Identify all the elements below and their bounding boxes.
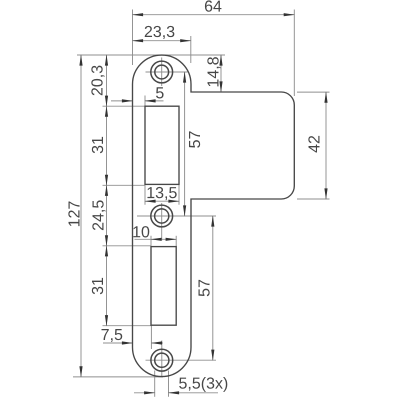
label 5,5(3x) xyxy=(179,377,227,392)
dimension 13,5 xyxy=(145,200,179,202)
centerline top hole horizontal xyxy=(146,71,188,73)
extension line: plate bottom level y=377 xyxy=(73,376,163,378)
strike plate outline xyxy=(133,55,295,377)
rectangular cutout 1 (latch opening) xyxy=(145,106,179,184)
dimension 31 upper xyxy=(106,106,108,185)
extension line: lip right edge extended up (for 64) xyxy=(293,10,295,97)
extension line: plate left edge extended up (for 64 and 23,3) xyxy=(132,10,134,66)
dimension 42 xyxy=(325,92,327,199)
extension line: rect1 top left (for 20,3 / 31) xyxy=(103,105,146,107)
label 31l xyxy=(92,278,103,294)
top screw hole xyxy=(151,61,173,83)
extension line: lip top edge extended right (for 42) xyxy=(297,91,330,93)
label 5 xyxy=(156,87,164,98)
label 127 xyxy=(68,201,79,226)
centerline bottom hole vertical xyxy=(161,341,163,377)
dimension 31 lower xyxy=(106,246,108,326)
extension line: rect2 top left (for 24,5 / 31) xyxy=(103,245,152,247)
dimension 10 (with text leader to the left) xyxy=(135,238,152,240)
extension line: bottom hole sides extended down (for 5,5) xyxy=(154,371,156,397)
centerline middle hole horizontal xyxy=(137,215,216,217)
dimension 57 lower xyxy=(212,216,214,360)
dimension 64 top xyxy=(133,14,295,16)
extension line: plate right edge extended up (for 23,3) xyxy=(190,36,192,63)
extension line: rect2 left edge extended down (for 7,5) xyxy=(150,325,152,349)
label 7,5 xyxy=(102,329,123,342)
label 57u xyxy=(189,131,200,147)
extension line: rect1 bottom left (for 31 / 24,5) xyxy=(103,184,146,186)
dimension 14,8 xyxy=(220,55,222,92)
dimension 5,5(3x) (arrows outside, leader right) xyxy=(134,392,155,394)
dimension 127 xyxy=(80,55,82,377)
dimension 20,3 xyxy=(106,55,108,106)
label 42 xyxy=(308,136,319,153)
label 31u xyxy=(92,137,103,153)
extension line: rect1 bottom corners extended down (for 13,5) xyxy=(144,184,146,204)
centerline middle hole vertical xyxy=(161,203,163,241)
bottom screw hole xyxy=(151,349,173,371)
centerline top hole vertical xyxy=(161,58,163,87)
dimension 23,3 xyxy=(133,40,191,42)
dimension 57 upper xyxy=(184,72,186,216)
extension line: plate top level y=55 xyxy=(77,54,225,56)
extension line: lip bottom edge extended right (for 42) xyxy=(297,198,330,200)
label 14,8 xyxy=(207,57,220,86)
extension line: rect2 bottom left (for 31 / 7,5) xyxy=(103,325,152,327)
label 24,5 xyxy=(92,200,105,230)
dimension 5 (left arrow tail, arrow outside) xyxy=(111,100,133,102)
label 13,5 xyxy=(147,187,176,200)
label 64 xyxy=(205,0,222,11)
extension line: rect2 top corners extended up (for 10) xyxy=(150,236,152,247)
label 10 xyxy=(133,226,149,237)
rectangular cutout 2 (deadbolt opening) xyxy=(151,247,176,326)
dimension 5 (right arrow tail, arrow outside) xyxy=(145,100,164,102)
label 57l xyxy=(198,280,209,296)
dimension 7,5 (left arrow with leader, arrows outside) xyxy=(103,342,133,344)
label 23,3 xyxy=(145,26,175,39)
centerline bottom hole horizontal xyxy=(146,359,217,361)
label 20,3 xyxy=(91,66,104,96)
extension line: rect1 left edge extended up (for 5) xyxy=(144,96,146,107)
middle screw hole xyxy=(151,205,173,227)
dimension 24,5 xyxy=(106,185,108,246)
